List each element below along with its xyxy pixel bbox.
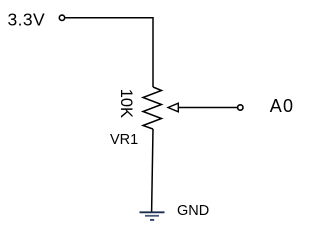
svg-text:10K: 10K	[117, 89, 135, 118]
svg-text:GND: GND	[177, 203, 209, 219]
svg-text:A0: A0	[270, 96, 295, 116]
svg-text:VR1: VR1	[110, 132, 138, 148]
svg-text:3.3V: 3.3V	[8, 9, 46, 29]
